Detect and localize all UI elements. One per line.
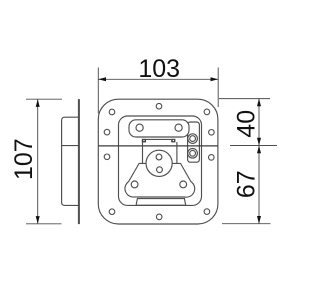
shield rivet left [131, 181, 138, 188]
arrow 103 left [98, 77, 106, 81]
hasp washer upper [188, 134, 198, 144]
screw hole top-right [204, 109, 210, 115]
capsule rivet right [175, 124, 182, 131]
svg-text:103: 103 [138, 55, 180, 83]
arrow 40 bottom [257, 138, 261, 146]
svg-text:40: 40 [232, 110, 260, 138]
wing shield plate [125, 163, 195, 197]
tongue side right [176, 142, 178, 163]
arrow 40 top [257, 99, 261, 107]
bottom spring bar [136, 199, 186, 206]
screw hole bottom-right [204, 209, 210, 215]
ext line 103 left [97, 68, 99, 114]
ext line right top [219, 98, 270, 100]
top capsule bridge [129, 120, 189, 137]
arrow 107 top [36, 99, 40, 107]
ext line right bottom [222, 223, 271, 225]
ext line 107 bottom [26, 223, 62, 225]
screw hole bottom-left [109, 209, 115, 215]
side view plate edge [78, 99, 80, 224]
hub hole lower [157, 167, 163, 173]
screw hole top-center [156, 103, 162, 109]
recessed dish [119, 116, 202, 205]
capsule rivet left [136, 124, 143, 131]
hub hole upper [156, 154, 162, 160]
svg-text:67: 67 [232, 170, 260, 198]
ext line right middle [230, 145, 277, 147]
dim line 103 [98, 78, 218, 80]
arrow 103 right [211, 77, 219, 81]
side view dish profile [62, 117, 80, 205]
dim line 107 [37, 99, 39, 224]
tongue side left [142, 142, 144, 163]
arrow 67 top [257, 146, 261, 154]
lid lower edge [146, 138, 171, 140]
arrow 67 bottom [257, 216, 261, 224]
screw hole right-upper [209, 130, 215, 136]
screw hole left-lower [104, 154, 110, 160]
arrow 107 bottom [36, 216, 40, 224]
ext line 103 right [217, 68, 219, 108]
leaf split line [98, 145, 218, 147]
screw hole right-lower [209, 155, 215, 161]
dim line 40-67 [258, 99, 260, 224]
ext line 107 top [26, 98, 62, 100]
hinge foot left [142, 139, 146, 143]
padlock hasp plate [188, 122, 200, 162]
side view split line [62, 145, 79, 147]
butterfly hub [146, 150, 172, 176]
dimension lines [26, 68, 277, 224]
shield rivet right [180, 181, 187, 188]
screw hole top-left [109, 109, 115, 115]
svg-text:107: 107 [10, 138, 38, 180]
hasp washer lower [188, 149, 198, 159]
front plate [98, 99, 218, 224]
screw hole left-upper [104, 129, 110, 135]
hinge foot right [171, 139, 175, 143]
screw hole bottom-center [156, 214, 162, 220]
